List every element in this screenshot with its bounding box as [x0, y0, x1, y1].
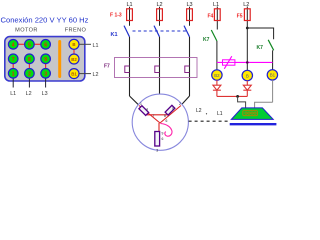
svg-text:5: 5	[28, 42, 31, 48]
svg-text:8: 8	[164, 114, 166, 118]
svg-text:F5: F5	[237, 14, 243, 20]
svg-text:7: 7	[153, 114, 155, 118]
svg-text:9: 9	[162, 132, 164, 136]
svg-text:K7: K7	[203, 37, 210, 43]
svg-text:3: 3	[156, 149, 158, 153]
svg-text:8: 8	[28, 57, 31, 63]
svg-text:B2: B2	[214, 73, 220, 78]
svg-text:L2: L2	[93, 72, 99, 78]
svg-text:5: 5	[172, 107, 174, 111]
svg-text:4: 4	[146, 108, 148, 112]
svg-text:6: 6	[162, 137, 164, 141]
svg-text:6: 6	[44, 42, 47, 48]
svg-text:L1: L1	[10, 91, 16, 97]
svg-text:L2: L2	[196, 108, 202, 114]
svg-text:F 1-3: F 1-3	[110, 13, 122, 19]
svg-text:2: 2	[28, 71, 31, 77]
svg-text:L3: L3	[42, 91, 48, 97]
svg-text:B: B	[72, 42, 75, 47]
svg-text:4: 4	[12, 42, 15, 48]
svg-text:Conexión 220 V YY 60 Hz: Conexión 220 V YY 60 Hz	[1, 15, 89, 24]
svg-text:F7: F7	[104, 64, 110, 70]
svg-text:7: 7	[12, 57, 15, 63]
svg-text:L2: L2	[243, 2, 249, 8]
svg-text:K7: K7	[257, 45, 264, 51]
svg-text:F4: F4	[207, 14, 213, 20]
svg-text:L1: L1	[93, 43, 99, 49]
svg-text:L1: L1	[213, 2, 219, 8]
svg-text:L2: L2	[26, 91, 32, 97]
svg-text:K1: K1	[111, 32, 118, 38]
svg-text:B1: B1	[270, 73, 276, 78]
svg-text:9: 9	[44, 57, 47, 63]
svg-text:1: 1	[12, 71, 15, 77]
svg-text:MOTOR: MOTOR	[15, 28, 38, 34]
svg-text:3: 3	[44, 71, 47, 77]
svg-text:B: B	[246, 73, 249, 78]
svg-text:B1: B1	[71, 71, 77, 76]
svg-text:FRENO: FRENO	[65, 28, 87, 34]
svg-text:L1: L1	[217, 111, 223, 117]
svg-text:2: 2	[179, 102, 181, 106]
svg-text:6: 6	[166, 119, 168, 123]
svg-text:B2: B2	[71, 57, 77, 62]
svg-text:1: 1	[140, 102, 142, 106]
